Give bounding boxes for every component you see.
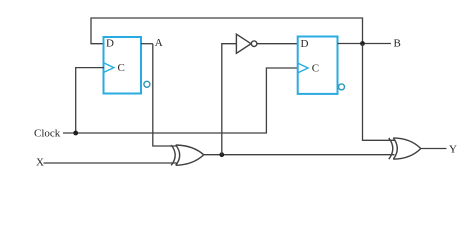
svg-text:D: D — [106, 38, 114, 50]
flip-flop U1 body — [104, 37, 142, 94]
svg-text:B: B — [394, 38, 401, 50]
svg-text:D: D — [301, 38, 309, 50]
svg-text:A: A — [155, 37, 163, 49]
wire: XOR2 output to Y — [421, 148, 447, 150]
svg-text:C: C — [118, 62, 125, 74]
wire: Q of U1 to node A — [141, 43, 153, 45]
wire: node B down to XOR2 top input — [363, 44, 396, 141]
svg-text:X: X — [36, 157, 44, 169]
inverter U3 bubble — [251, 41, 257, 47]
flip-flop U2 clock triangle — [298, 63, 308, 73]
wire: clock branch up to C of U1 — [76, 68, 104, 133]
flip-flop U1 Q' bubble — [144, 81, 150, 87]
flip-flop U2 body — [298, 37, 338, 94]
wire: XOR1 output up to inverter input — [222, 44, 237, 155]
svg-text:C: C — [312, 63, 319, 75]
svg-text:Clock: Clock — [34, 128, 61, 140]
wire: inverter output to D of U2 — [257, 43, 299, 45]
junction: clock node — [73, 131, 78, 136]
junction: XOR1 output node — [219, 152, 224, 157]
xor gate XOR1 — [171, 145, 204, 165]
xor gate XOR2 — [389, 138, 421, 159]
wire: XOR1 output across to XOR2 bottom input — [204, 154, 395, 156]
inverter U3 triangle — [236, 34, 251, 53]
wire: X input to XOR1 bottom input — [44, 162, 178, 164]
flip-flop U2 Q' bubble — [339, 84, 345, 90]
wire: Q of U2 to node B — [338, 43, 392, 45]
junction: node B — [360, 41, 365, 46]
svg-text:Y: Y — [449, 144, 457, 156]
flip-flop U1 clock triangle — [104, 63, 114, 73]
wire: node A down to XOR1 top input — [153, 44, 177, 146]
wire: feedback from node B up and across top to D input of U1 — [91, 18, 363, 44]
wire: clock line across to C of U2 — [63, 68, 299, 133]
